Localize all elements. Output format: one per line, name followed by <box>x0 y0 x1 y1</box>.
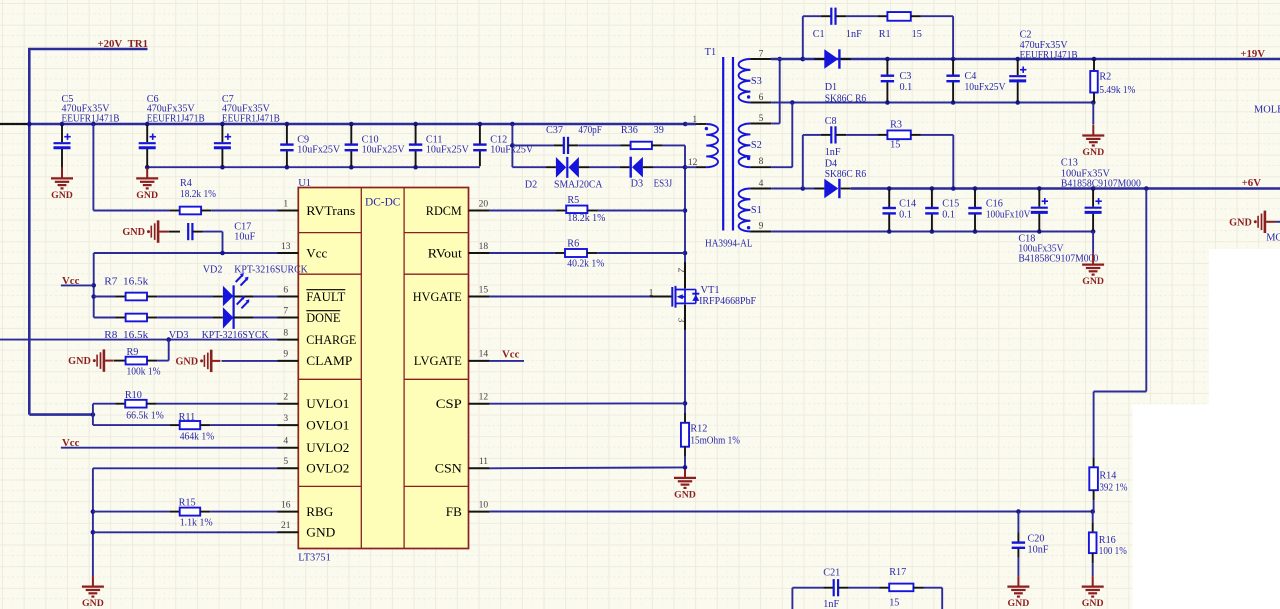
resistor R9 <box>114 360 126 362</box>
svg-text:DONE: DONE <box>306 310 340 325</box>
wire R7 to VD2 <box>157 296 213 298</box>
resistor R10 <box>93 403 115 405</box>
pin 18 stub <box>469 252 490 254</box>
svg-text:RDCM: RDCM <box>426 203 462 218</box>
wire R9 up to pin8 net <box>157 360 168 362</box>
capacitor C9 <box>286 125 288 144</box>
svg-text:C14: C14 <box>899 199 916 210</box>
svg-text:R7 16.5k: R7 16.5k <box>104 277 149 288</box>
pin 3 stub <box>278 424 299 426</box>
svg-text:16: 16 <box>281 500 291 510</box>
svg-text:S2: S2 <box>751 140 762 151</box>
svg-text:GND: GND <box>68 356 91 367</box>
svg-text:9: 9 <box>759 222 764 232</box>
svg-text:C2: C2 <box>1020 29 1032 40</box>
pin 6 stub <box>278 296 299 298</box>
svg-text:EEUFR1J471B: EEUFR1J471B <box>147 113 205 124</box>
svg-text:R17: R17 <box>889 567 906 578</box>
svg-text:2: 2 <box>283 393 288 403</box>
svg-text:GND: GND <box>1082 598 1104 609</box>
svg-text:T1: T1 <box>705 47 717 58</box>
wire R14 to FB node <box>1093 500 1095 511</box>
S2 polarity dot <box>747 157 750 160</box>
wire Vcc vertical <box>93 253 95 318</box>
capacitor C16 <box>974 190 976 208</box>
svg-text:RVTrans: RVTrans <box>306 203 355 218</box>
pin 9 stub <box>278 360 299 362</box>
wire pin 20 to R5 <box>490 210 556 212</box>
primary polarity dot <box>705 127 708 130</box>
capacitor C15 <box>931 190 933 208</box>
capacitor C18 <box>1092 190 1094 207</box>
svg-text:GND: GND <box>1082 147 1104 158</box>
svg-text:R36: R36 <box>621 125 638 136</box>
svg-text:OVLO2: OVLO2 <box>306 461 349 476</box>
wire pin 21 GND row <box>93 531 278 533</box>
transformer pin 4 <box>750 188 771 190</box>
svg-text:0.1: 0.1 <box>899 210 912 221</box>
svg-text:1.1k 1%: 1.1k 1% <box>180 518 213 529</box>
wire pin8 jog to pin6 net <box>771 166 792 168</box>
svg-text:HVGATE: HVGATE <box>413 289 462 304</box>
wire bus branch vertical <box>511 124 513 167</box>
svg-text:D3: D3 <box>631 178 643 189</box>
wire Vcc to pin 4 <box>61 447 278 449</box>
transformer core <box>722 57 724 231</box>
transistor source pin <box>684 305 686 331</box>
svg-text:5: 5 <box>283 457 288 467</box>
svg-text:FB: FB <box>446 504 462 519</box>
svg-text:4: 4 <box>283 437 288 447</box>
wire R10 to pin 2 <box>157 403 278 405</box>
svg-text:GND: GND <box>51 190 73 201</box>
off-sheet white area right <box>1209 249 1280 609</box>
svg-text:S3: S3 <box>751 76 762 87</box>
svg-text:12: 12 <box>688 158 698 168</box>
svg-text:9: 9 <box>283 350 288 360</box>
wire pin 10 FB row <box>490 511 1093 513</box>
wire pin 5 OVLO2 row <box>93 467 278 469</box>
wire pin 15 HVGATE to gate <box>490 296 650 298</box>
svg-text:18: 18 <box>479 242 489 252</box>
svg-text:EEUFR1J471B: EEUFR1J471B <box>222 113 280 124</box>
wire pin 7 to rail <box>771 58 803 60</box>
svg-text:GND: GND <box>136 190 158 201</box>
svg-text:+6V: +6V <box>1242 177 1262 189</box>
resistor R5 <box>556 210 566 212</box>
svg-text:15mOhm 1%: 15mOhm 1% <box>690 436 740 447</box>
capacitor C37 <box>512 144 553 146</box>
svg-text:6: 6 <box>283 285 288 295</box>
svg-text:15: 15 <box>479 285 489 295</box>
svg-text:470pF: 470pF <box>578 125 602 136</box>
wire R8 to VD3 <box>157 317 213 319</box>
svg-text:7: 7 <box>283 306 288 316</box>
wire R4 to pin 1 <box>211 210 277 212</box>
svg-text:10uFx25V: 10uFx25V <box>965 82 1007 93</box>
wire pin 4 to rail2 <box>771 188 824 190</box>
svg-text:10uF: 10uF <box>234 232 255 243</box>
capacitor C3 <box>886 60 888 75</box>
capacitor C7 <box>221 125 223 142</box>
ground symbol below R2 <box>1092 103 1094 125</box>
pin 15 stub <box>469 296 490 298</box>
capacitor C6 <box>146 125 148 142</box>
svg-text:100uFx10V: 100uFx10V <box>986 210 1031 221</box>
svg-text:15: 15 <box>890 140 900 151</box>
resistor R17 <box>849 587 880 589</box>
wire VD2 to pin 6 <box>234 296 254 298</box>
wire Vcc pin13 row <box>94 252 278 254</box>
wire GND to pin 9 CLAMP <box>222 360 278 362</box>
capacitor C11 <box>415 125 417 144</box>
capacitor C1 <box>803 15 821 17</box>
svg-text:C1: C1 <box>813 29 825 40</box>
svg-text:GND: GND <box>674 489 696 500</box>
svg-text:13: 13 <box>281 242 291 252</box>
svg-text:3: 3 <box>283 414 288 424</box>
svg-text:6: 6 <box>759 93 764 103</box>
wire R11 to pin 3 <box>210 424 277 426</box>
svg-text:464k 1%: 464k 1% <box>180 432 215 443</box>
svg-text:10nF: 10nF <box>1028 544 1049 555</box>
TVS diode D2 <box>546 166 556 168</box>
svg-text:CHARGE: CHARGE <box>306 332 356 347</box>
svg-text:UVLO2: UVLO2 <box>306 440 349 455</box>
wire R36 to drain node <box>662 144 685 146</box>
wire D2 row <box>512 166 546 168</box>
svg-text:10uFx25V: 10uFx25V <box>362 145 406 156</box>
wire C17 to Vcc pin 13 <box>203 231 223 233</box>
transformer primary pin 12 <box>685 166 696 168</box>
transformer winding S2 <box>739 124 751 168</box>
svg-text:1: 1 <box>649 288 654 298</box>
pin 12 stub <box>469 403 490 405</box>
pin 8 stub <box>278 339 299 341</box>
svg-text:1: 1 <box>283 199 288 209</box>
svg-text:Vcc: Vcc <box>306 245 327 260</box>
svg-text:21: 21 <box>281 521 291 531</box>
capacitor C8 <box>803 134 821 136</box>
wire C21 branch left vertical <box>791 588 793 609</box>
power port GND bar at C17 <box>147 230 150 233</box>
svg-text:Vcc: Vcc <box>502 348 520 360</box>
capacitor C2 <box>1017 60 1019 75</box>
resistor R14 <box>1093 457 1095 467</box>
svg-text:R3: R3 <box>890 119 902 130</box>
wire pin 11 CSN row <box>490 466 685 469</box>
svg-text:MOLE: MOLE <box>1254 104 1280 115</box>
svg-text:C21: C21 <box>823 568 840 579</box>
svg-text:15: 15 <box>912 29 922 40</box>
svg-text:MO: MO <box>1266 233 1280 244</box>
resistor R4 <box>170 210 180 212</box>
svg-text:C20: C20 <box>1028 534 1045 545</box>
svg-text:KPT-3216SURCK: KPT-3216SURCK <box>234 265 308 276</box>
capacitor C21 <box>792 587 823 589</box>
svg-text:0.1: 0.1 <box>942 210 955 221</box>
svg-text:R2: R2 <box>1099 72 1111 83</box>
wire D2 to D3 <box>579 166 589 168</box>
wire +20V to divider <box>29 413 93 416</box>
svg-text:B41858C9107M000: B41858C9107M000 <box>1061 178 1141 189</box>
wire +20V vertical rail <box>28 48 31 415</box>
ground symbol for C6 <box>146 168 148 179</box>
LED cathode bar VD2 VD3 <box>233 285 235 329</box>
wire rail2 to divider vertical <box>1145 189 1147 392</box>
svg-text:CSP: CSP <box>436 396 462 411</box>
svg-text:R4: R4 <box>180 178 192 189</box>
wire down to R14 <box>1093 392 1095 458</box>
pin 1 stub <box>278 210 299 212</box>
svg-text:VD2: VD2 <box>203 265 223 276</box>
ground symbol bottom left <box>92 576 94 587</box>
svg-text:C16: C16 <box>986 199 1003 210</box>
svg-text:40.2k 1%: 40.2k 1% <box>567 259 604 270</box>
svg-text:FAULT: FAULT <box>306 289 345 304</box>
svg-text:SK86C R6: SK86C R6 <box>825 169 867 180</box>
pin 2 stub <box>278 403 299 405</box>
power port GND bar at CLAMP <box>200 359 203 362</box>
wire pin 12 CSP row <box>490 402 685 404</box>
LED VD2 arrows <box>236 274 243 282</box>
wire C1 branch vertical <box>802 16 804 59</box>
resistor R12 <box>684 413 686 423</box>
svg-text:LVGATE: LVGATE <box>414 353 462 368</box>
svg-text:UVLO1: UVLO1 <box>306 396 349 411</box>
svg-text:10uFx25V: 10uFx25V <box>426 145 470 156</box>
svg-text:10: 10 <box>479 500 489 510</box>
svg-text:C8: C8 <box>825 116 837 127</box>
wire R17 right vertical <box>924 587 943 589</box>
wire source to CSP <box>684 330 686 413</box>
wire drain vertical <box>684 145 686 262</box>
diode D3 <box>620 166 630 168</box>
svg-text:RVout: RVout <box>428 245 462 260</box>
svg-text:39: 39 <box>654 125 664 136</box>
wire pin6 ground row right <box>887 102 1093 104</box>
svg-text:C3: C3 <box>900 71 912 82</box>
svg-text:GND: GND <box>1008 598 1030 609</box>
resistor R16 <box>1092 512 1094 523</box>
svg-text:11: 11 <box>479 457 488 467</box>
wire R3 to rail2 <box>921 134 953 136</box>
resistor R8 <box>94 317 116 319</box>
node bus junctions <box>27 122 32 127</box>
svg-text:1: 1 <box>692 115 697 125</box>
pin 13 stub <box>278 252 299 254</box>
svg-text:R6: R6 <box>567 238 579 249</box>
transformer winding S3 <box>739 59 751 103</box>
LED VD3 arrows <box>237 297 244 305</box>
svg-text:1nF: 1nF <box>846 29 862 40</box>
wire VD3 to pin 7 <box>234 317 254 319</box>
transformer pin 9 <box>750 231 771 233</box>
resistor R1 <box>846 15 877 17</box>
svg-text:10uFx25V: 10uFx25V <box>297 145 341 156</box>
ground symbol for C5 <box>61 167 63 168</box>
svg-text:C4: C4 <box>965 71 977 82</box>
wire pin 18 to R6 <box>490 252 555 254</box>
svg-text:66.5k 1%: 66.5k 1% <box>126 411 164 422</box>
wire capacitor ground row <box>147 166 480 168</box>
off-sheet white area bottom-right <box>1133 404 1280 609</box>
svg-text:100k 1%: 100k 1% <box>127 367 161 378</box>
svg-text:OVLO1: OVLO1 <box>306 417 349 432</box>
transformer pin 7 <box>750 58 771 60</box>
wire bus to R4 <box>92 124 94 211</box>
svg-text:HA3994-AL: HA3994-AL <box>705 238 753 249</box>
svg-text:R5: R5 <box>567 195 579 206</box>
svg-text:R12: R12 <box>690 423 707 434</box>
transformer primary pin 1 <box>685 123 696 126</box>
svg-text:15: 15 <box>889 598 899 609</box>
wire divider horizontal jog <box>1094 391 1147 393</box>
svg-text:DC-DC: DC-DC <box>365 196 400 208</box>
wire +19V rail <box>771 58 1280 61</box>
svg-text:GND: GND <box>1229 217 1252 228</box>
transformer winding S1 <box>739 189 751 232</box>
svg-text:GND: GND <box>122 227 145 238</box>
wire main +20V bus <box>0 123 29 125</box>
resistor R7 <box>94 296 116 298</box>
svg-text:1nF: 1nF <box>823 599 839 609</box>
wire divider vertical <box>92 404 94 425</box>
svg-text:CSN: CSN <box>435 461 463 476</box>
svg-text:0.1: 0.1 <box>900 82 913 93</box>
svg-text:392 1%: 392 1% <box>1099 482 1127 493</box>
power port GND bar at R9 <box>93 359 96 362</box>
transistor VT1 IRFP4668PbF <box>671 287 673 307</box>
capacitor C14 <box>888 190 890 208</box>
wire pin 6 row start <box>771 102 887 104</box>
diode D4 <box>814 188 824 190</box>
resistor R11 <box>93 424 170 426</box>
ground symbol below R16 <box>1092 563 1094 576</box>
svg-text:C15: C15 <box>942 199 959 210</box>
resistor R15 <box>170 511 180 513</box>
svg-text:ES3J: ES3J <box>654 178 673 189</box>
wire C8 branch vertical <box>802 135 804 189</box>
capacitor C13 <box>1038 190 1040 207</box>
wire R12 to CSN <box>684 457 686 468</box>
svg-text:GND: GND <box>306 525 335 540</box>
svg-text:LT3751: LT3751 <box>298 552 331 563</box>
resistor R2 <box>1093 59 1095 71</box>
capacitor C17 <box>169 231 181 233</box>
svg-text:EEUFR1J471B: EEUFR1J471B <box>62 113 120 124</box>
transformer pin 8 <box>750 166 771 168</box>
svg-text:SK86C R6: SK86C R6 <box>825 94 867 105</box>
transformer pin 6 <box>750 102 771 104</box>
svg-text:100 1%: 100 1% <box>1099 546 1127 557</box>
resistor R6 <box>555 252 565 254</box>
wire GND bar to edge <box>1276 221 1280 223</box>
svg-text:RBG: RBG <box>306 504 333 519</box>
ground symbol below C18 <box>1092 232 1094 254</box>
resistor R36 <box>578 144 620 146</box>
wire +6V rail <box>851 187 1280 190</box>
wire pin 8 CHARGE row <box>0 339 278 341</box>
wire pin5 jog to pin7 net <box>771 123 780 125</box>
node CSN junction <box>683 465 688 470</box>
svg-text:B41858C9107M000: B41858C9107M000 <box>1018 254 1098 265</box>
svg-text:GND: GND <box>175 356 198 367</box>
pin 4 stub <box>278 447 299 449</box>
svg-text:5: 5 <box>759 114 764 124</box>
svg-text:D1: D1 <box>825 82 837 93</box>
transformer pin 5 <box>750 123 771 125</box>
svg-text:S1: S1 <box>751 205 762 216</box>
svg-text:C13: C13 <box>1061 157 1078 168</box>
wire D3 to drain node <box>643 166 653 168</box>
transistor drain pin <box>684 262 686 289</box>
svg-text:7: 7 <box>759 50 764 60</box>
svg-text:14: 14 <box>479 350 489 360</box>
svg-text:GND: GND <box>1082 276 1104 287</box>
S3 polarity dot <box>747 95 750 98</box>
wire pin 9 bottom row <box>771 231 889 233</box>
LED VD2 <box>213 296 223 298</box>
power port GND bar MOLEX <box>1254 220 1257 223</box>
pin 16 stub <box>278 511 299 513</box>
svg-text:R1: R1 <box>879 29 891 40</box>
svg-text:D4: D4 <box>825 159 837 170</box>
capacitor C10 <box>350 125 352 144</box>
svg-text:4: 4 <box>759 179 764 189</box>
svg-text:8: 8 <box>759 157 764 167</box>
resistor R3 <box>846 134 877 136</box>
diode D1 <box>803 58 814 60</box>
pin 5 stub <box>278 467 299 469</box>
svg-text:GND: GND <box>82 598 104 609</box>
wire R15 to pin 16 <box>93 511 170 513</box>
wire bottom secondary row <box>889 231 1093 233</box>
wire R6 to drain node <box>597 252 685 254</box>
transformer primary winding <box>706 124 718 167</box>
svg-text:IRFP4668PbF: IRFP4668PbF <box>699 296 756 307</box>
capacitor C20 <box>1017 512 1019 533</box>
pin 7 stub <box>278 317 299 319</box>
svg-text:EEUFR1J471B: EEUFR1J471B <box>1020 50 1078 61</box>
pin 10 stub <box>469 511 490 513</box>
svg-text:5.49k 1%: 5.49k 1% <box>1099 85 1135 96</box>
pin 20 stub <box>469 210 490 212</box>
S1 polarity dot <box>747 226 750 229</box>
svg-text:D2: D2 <box>525 179 537 190</box>
svg-text:1nF: 1nF <box>825 147 841 158</box>
svg-text:VT1: VT1 <box>701 285 720 296</box>
ground symbol below R12 <box>684 467 686 478</box>
ground symbol below C20 <box>1017 557 1019 576</box>
pin 14 stub <box>469 360 490 362</box>
wire left ground vertical <box>92 468 94 576</box>
pin 11 stub <box>469 467 490 469</box>
LED VD3 <box>213 317 223 319</box>
capacitor C12 <box>479 125 481 144</box>
pin 21 stub <box>278 531 299 533</box>
svg-text:C37: C37 <box>546 125 563 136</box>
svg-text:20: 20 <box>479 199 489 209</box>
wire +20V horizontal <box>28 48 147 51</box>
capacitor C5 <box>61 125 63 142</box>
svg-text:12: 12 <box>479 393 489 403</box>
svg-text:8: 8 <box>283 328 288 338</box>
wire R5 to drain node <box>598 210 686 212</box>
svg-text:CLAMP: CLAMP <box>306 353 352 368</box>
svg-text:18.2k 1%: 18.2k 1% <box>180 189 216 200</box>
wire R1 to rail <box>921 15 953 17</box>
